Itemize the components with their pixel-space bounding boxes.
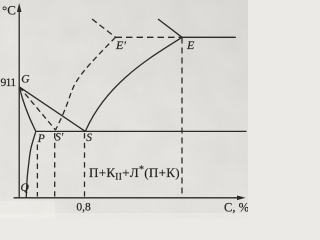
svg-text:°C: °C xyxy=(2,3,16,18)
svg-text:S′: S′ xyxy=(55,131,64,143)
curve GP xyxy=(19,87,36,132)
svg-text:C, %: C, % xyxy=(224,201,248,215)
svg-text:0,8: 0,8 xyxy=(76,202,91,214)
svg-text:S: S xyxy=(86,132,92,144)
horizontal line from E to right xyxy=(182,36,236,38)
curve PQ xyxy=(26,132,36,198)
dashed vertical below E xyxy=(181,38,183,197)
dashed line GS' xyxy=(19,87,56,130)
x-axis xyxy=(14,197,242,199)
solid solidus line above E xyxy=(158,19,182,37)
dashed line above E' xyxy=(92,19,116,37)
svg-text:P: P xyxy=(37,133,45,145)
svg-text:G: G xyxy=(21,74,30,86)
svg-text:911: 911 xyxy=(0,77,16,89)
dashed horizontal E' to E xyxy=(116,36,183,38)
light bottom strip xyxy=(0,213,248,219)
dashed vertical below P xyxy=(36,145,38,197)
svg-text:E′: E′ xyxy=(115,38,126,52)
dashed vertical below S (0,8) xyxy=(84,133,86,197)
curve SE (Acm) xyxy=(85,37,182,131)
y-axis arrowhead xyxy=(17,3,22,12)
dashed vertical below S' xyxy=(54,133,56,197)
y-axis xyxy=(18,7,20,198)
svg-text:E: E xyxy=(186,38,195,52)
line PSK (727C horizontal) xyxy=(36,130,247,132)
x-axis arrowhead xyxy=(237,196,246,201)
svg-text:Q: Q xyxy=(21,182,30,194)
dashed curve S'E' xyxy=(56,37,116,130)
line GS xyxy=(19,87,85,132)
